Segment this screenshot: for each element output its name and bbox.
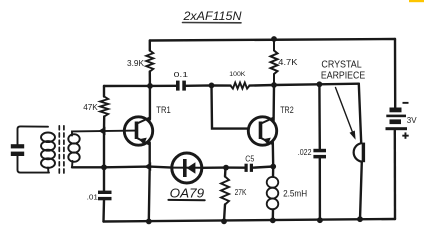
tuning capacitor CV plates [11, 144, 24, 156]
svg-text:2xAF115N: 2xAF115N [182, 11, 242, 23]
wire C7 022 branch [318, 84, 321, 220]
svg-text:3V: 3V [407, 115, 417, 125]
wire TR1 collector line [149, 41, 151, 120]
svg-text:C5: C5 [245, 154, 255, 163]
svg-text:27K: 27K [235, 188, 247, 197]
svg-text:3.9K: 3.9K [127, 59, 145, 68]
wire 27K leads [224, 168, 226, 222]
battery minus sign [403, 102, 409, 104]
resistor R5 27K [221, 177, 229, 205]
svg-text:.022: .022 [298, 148, 312, 157]
resistor R1 3.9K [146, 51, 153, 72]
svg-text:TR1: TR1 [156, 105, 170, 115]
svg-text:.01: .01 [87, 193, 98, 202]
junction crowfoot at TR1 emitter node [144, 162, 151, 171]
wire 2.5mH leads [272, 167, 275, 221]
wire TR2 collector lead [272, 85, 275, 121]
label OA79 [168, 185, 204, 200]
junction crowfoot at 47K base node [99, 127, 106, 136]
svg-text:TR2: TR2 [280, 105, 294, 115]
wire base bus vertical 47K branch [103, 86, 106, 167]
wire top rail [150, 39, 395, 41]
svg-text:4.7K: 4.7K [278, 57, 298, 67]
resistor R2 47K [100, 97, 108, 117]
wire main horizontal bus y86 [104, 84, 359, 86]
capacitor C5 [245, 164, 254, 172]
svg-text:0.1: 0.1 [174, 72, 189, 79]
diode D1 OA79 [172, 153, 202, 183]
svg-text:100K: 100K [229, 71, 246, 78]
wire earpiece branch [359, 84, 362, 220]
svg-text:47K: 47K [83, 102, 98, 112]
title 2xAF115N [182, 11, 242, 23]
resistor R3 100K [231, 83, 250, 89]
capacitor C2 0.1 [176, 81, 186, 91]
wire C1 top lead [103, 167, 105, 191]
wire TR2 emitter lead [272, 143, 275, 167]
transistor TR1 [124, 117, 152, 145]
svg-text:2.5mH: 2.5mH [283, 188, 307, 198]
wire TR1 emitter to ground [148, 143, 151, 222]
wire bottom rail [104, 219, 396, 222]
transformer core dashed lines [59, 126, 64, 175]
crystal earpiece [354, 143, 365, 163]
transformer T1 primary tuned winding [18, 126, 56, 172]
inductor L3 2.5mH [267, 177, 279, 209]
label CRYSTAL EARPIECE [321, 59, 366, 81]
transformer T1 secondary winding [68, 131, 136, 168]
wire battery positive lead [394, 131, 397, 220]
battery plus sign [402, 132, 408, 138]
capacitor C6 .022 [313, 149, 326, 159]
wire C1 bottom lead [102, 200, 105, 222]
wire detector line y167 [72, 167, 273, 168]
transistor TR2 [248, 117, 276, 145]
battery B1 3V [386, 108, 408, 131]
wire battery negative lead [394, 39, 397, 108]
svg-text:OA79: OA79 [170, 185, 204, 200]
resistor R4 4.7K [271, 39, 278, 85]
capacitor C1 .01 [98, 191, 112, 201]
svg-text:EARPIECE: EARPIECE [321, 71, 366, 82]
wire TR2 base branch [212, 85, 249, 128]
svg-text:CRYSTAL: CRYSTAL [321, 59, 362, 70]
earpiece pointer arrow [336, 88, 356, 140]
